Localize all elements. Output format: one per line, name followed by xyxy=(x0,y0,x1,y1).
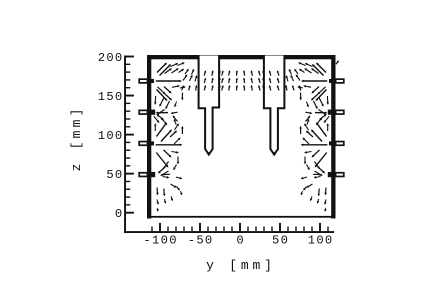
z axis title "z [mm]" (rotated) xyxy=(69,109,84,172)
probe 1 (left) body and stem with tip xyxy=(199,56,220,155)
svg-text:5: 5 xyxy=(106,168,113,182)
svg-text:5: 5 xyxy=(106,90,113,104)
svg-text:0: 0 xyxy=(115,51,122,65)
field arrows: right margin fans and arcs (mirrored) xyxy=(286,62,330,212)
field arrows: top band vertical arrows xyxy=(182,70,301,90)
z-axis major ticks xyxy=(126,56,134,214)
svg-text:0: 0 xyxy=(106,129,113,143)
svg-text:m: m xyxy=(69,119,84,127)
svg-text:0: 0 xyxy=(236,233,243,247)
left wall feedthrough stubs xyxy=(139,79,147,176)
svg-text:1: 1 xyxy=(308,233,315,247)
y-axis line xyxy=(124,231,334,233)
svg-text:0: 0 xyxy=(115,207,122,221)
svg-text:0: 0 xyxy=(106,51,113,65)
stub junction blobs xyxy=(151,79,333,177)
svg-text:0: 0 xyxy=(169,233,176,247)
svg-text:0: 0 xyxy=(281,233,288,247)
svg-text:5: 5 xyxy=(272,233,279,247)
cavity left wall xyxy=(147,55,151,219)
y tick labels xyxy=(143,233,332,247)
probe 2 (right) body and stem with tip xyxy=(264,56,285,155)
right wall feedthrough stubs xyxy=(336,79,344,176)
z-axis minor ticks xyxy=(126,64,130,206)
svg-text:0: 0 xyxy=(205,233,212,247)
svg-text:1: 1 xyxy=(98,129,105,143)
cavity bottom boundary line xyxy=(147,216,336,218)
svg-text:5: 5 xyxy=(196,233,203,247)
field arrows: left margin fans and arcs xyxy=(154,62,198,212)
svg-text:[: [ xyxy=(69,142,84,150)
y axis title "y [mm]" xyxy=(206,258,272,273)
svg-text:]: ] xyxy=(264,258,272,273)
svg-text:0: 0 xyxy=(115,168,122,182)
svg-text:0: 0 xyxy=(316,233,323,247)
svg-text:[: [ xyxy=(229,258,237,273)
tiny arrow outside right wall near top corner xyxy=(336,61,338,64)
svg-text:0: 0 xyxy=(325,233,332,247)
z-axis line xyxy=(124,56,126,233)
svg-text:0: 0 xyxy=(161,233,168,247)
cavity top wall xyxy=(147,55,336,59)
svg-text:-: - xyxy=(143,233,150,247)
y-axis minor ticks xyxy=(151,227,328,232)
svg-text:0: 0 xyxy=(115,129,122,143)
svg-text:1: 1 xyxy=(98,90,105,104)
y-axis major ticks xyxy=(159,223,321,231)
svg-text:1: 1 xyxy=(152,233,159,247)
svg-text:z: z xyxy=(69,164,84,172)
svg-text:y: y xyxy=(206,258,214,273)
svg-text:m: m xyxy=(241,258,249,273)
svg-text:0: 0 xyxy=(115,90,122,104)
z tick labels xyxy=(98,51,123,221)
svg-text:]: ] xyxy=(69,109,84,117)
svg-text:-: - xyxy=(188,233,195,247)
svg-text:2: 2 xyxy=(98,51,105,65)
svg-text:m: m xyxy=(252,258,260,273)
svg-text:m: m xyxy=(69,130,84,138)
cavity right wall xyxy=(331,55,335,219)
